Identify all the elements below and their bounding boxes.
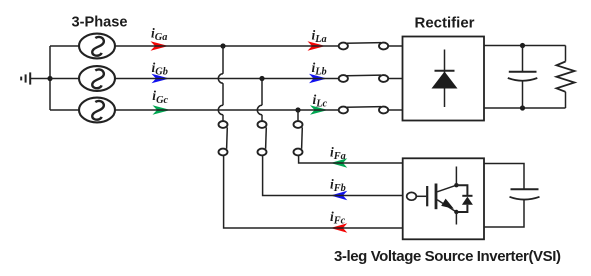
igbt freewheel diode branch top [456, 185, 467, 196]
wire dropper B upper [261, 79, 263, 106]
wire dropper A lower to iFc [224, 155, 403, 228]
capacitor C1 bottom plate [508, 78, 538, 81]
switch contact B lower [258, 149, 267, 156]
arrow iLc [310, 105, 328, 114]
svg-text:iLc: iLc [313, 92, 328, 110]
igbt emitter diagonal [437, 200, 456, 212]
switch row a left contact [339, 43, 348, 50]
node cap C1 top [520, 43, 525, 48]
wire bus vertical [49, 46, 51, 110]
igbt gate circle [407, 192, 417, 200]
igbt emitter arrow [441, 199, 454, 209]
capacitor C1 top lead [522, 46, 524, 72]
switch contact A lower [219, 149, 228, 156]
node igbt collector [454, 183, 458, 187]
resistor R1 bottom lead [565, 92, 567, 108]
arrow iGc [153, 105, 171, 114]
diode D1 triangle [432, 72, 458, 89]
svg-text:iGa: iGa [151, 26, 167, 44]
igbt gate bar [426, 186, 428, 206]
diode D1 cathode bar [435, 70, 455, 72]
wire dropper B lower to iFb [263, 155, 403, 195]
arrow iFb [331, 191, 348, 200]
wire row b to rectifier [388, 78, 402, 80]
igbt gate lead [416, 195, 426, 197]
wire inverter dc top [484, 164, 524, 190]
switch row a right contact [379, 43, 388, 50]
wire dropper A mid [222, 83, 224, 105]
wire dropper C lower to iFa [299, 155, 403, 163]
wire row b [115, 78, 339, 80]
wire hop dropper A over row b [218, 74, 223, 83]
inverter box [403, 158, 484, 239]
wire row a to rectifier [388, 45, 402, 47]
wire dc top rail [484, 45, 566, 47]
switch row c left contact [339, 107, 348, 114]
wire dropper A upper [222, 46, 224, 74]
svg-text:iGb: iGb [152, 60, 168, 78]
svg-text:Rectifier: Rectifier [415, 15, 475, 32]
switch row c right contact [379, 107, 388, 114]
node row b / dropper B junction [259, 76, 264, 81]
switch contact C upper [294, 121, 303, 128]
igbt collector stub [455, 167, 457, 186]
arrow iFc [331, 223, 348, 232]
ac source Vc [79, 98, 115, 123]
ac source Va [79, 34, 115, 59]
ground [21, 72, 30, 84]
wire dropper B to contact [261, 115, 263, 122]
node igbt emitter [454, 210, 458, 214]
igbt collector diagonal [437, 185, 456, 192]
capacitor C2 bottom plate [510, 197, 540, 200]
svg-text:iFb: iFb [330, 177, 346, 195]
arrow iFa [331, 158, 348, 167]
switch row c blade [346, 106, 381, 109]
node bus-ground junction [47, 76, 52, 81]
wire row c [115, 109, 339, 111]
diode D1 lead [444, 50, 446, 108]
wire dropper A to contact [222, 115, 224, 122]
svg-text:iLa: iLa [312, 28, 327, 46]
svg-text:3-leg Voltage Source Inverter(: 3-leg Voltage Source Inverter(VSI) [334, 248, 561, 265]
resistor R1 zigzag [557, 62, 575, 92]
node row c / dropper C junction [295, 107, 300, 112]
wire bus to source Va [50, 45, 79, 47]
wire hop dropper B over row c [257, 105, 262, 114]
wire hop dropper A over row c [218, 105, 223, 114]
switch row b right contact [379, 75, 388, 82]
wire dropper C upper [297, 110, 299, 121]
wire row c to rectifier [388, 109, 402, 111]
switch contact B upper [258, 121, 267, 128]
node cap C1 bottom [520, 105, 525, 110]
svg-text:3-Phase: 3-Phase [72, 14, 128, 30]
svg-text:iFc: iFc [330, 209, 346, 227]
arrow iGb [152, 74, 170, 83]
svg-text:iGc: iGc [152, 88, 168, 106]
switch blade B [265, 127, 268, 149]
switch row b blade [346, 74, 381, 77]
capacitor C2 bottom lead [484, 200, 524, 227]
wire ground to bus [30, 78, 50, 80]
arrow iGa [151, 41, 169, 50]
svg-text:iFa: iFa [330, 145, 346, 163]
wire bus to source Vb [50, 78, 79, 80]
rectifier box [403, 37, 485, 121]
capacitor C1 top plate [509, 71, 537, 73]
switch row b left contact [339, 75, 348, 82]
igbt freewheel diode triangle [462, 197, 473, 205]
ac source Vb [79, 66, 115, 91]
switch contact A upper [219, 121, 228, 128]
capacitor C2 top plate [511, 188, 539, 190]
wire row a [115, 45, 339, 47]
wire bus to source Vc [50, 109, 79, 111]
arrow iLa [308, 41, 326, 50]
igbt body bar [435, 184, 438, 210]
igbt freewheel diode bar [462, 195, 472, 197]
resistor R1 top lead [565, 46, 567, 62]
switch contact C lower [294, 149, 303, 156]
switch blade C [301, 127, 304, 149]
node row a / dropper A junction [220, 43, 225, 48]
switch row a blade [346, 42, 381, 45]
igbt emitter stub [455, 212, 457, 225]
svg-text:iLb: iLb [312, 60, 327, 78]
arrow iLb [309, 74, 327, 83]
igbt freewheel diode branch bottom [456, 205, 467, 212]
switch blade A [226, 127, 229, 149]
wire dc bottom rail [484, 107, 566, 109]
capacitor C1 bottom lead [522, 81, 524, 108]
